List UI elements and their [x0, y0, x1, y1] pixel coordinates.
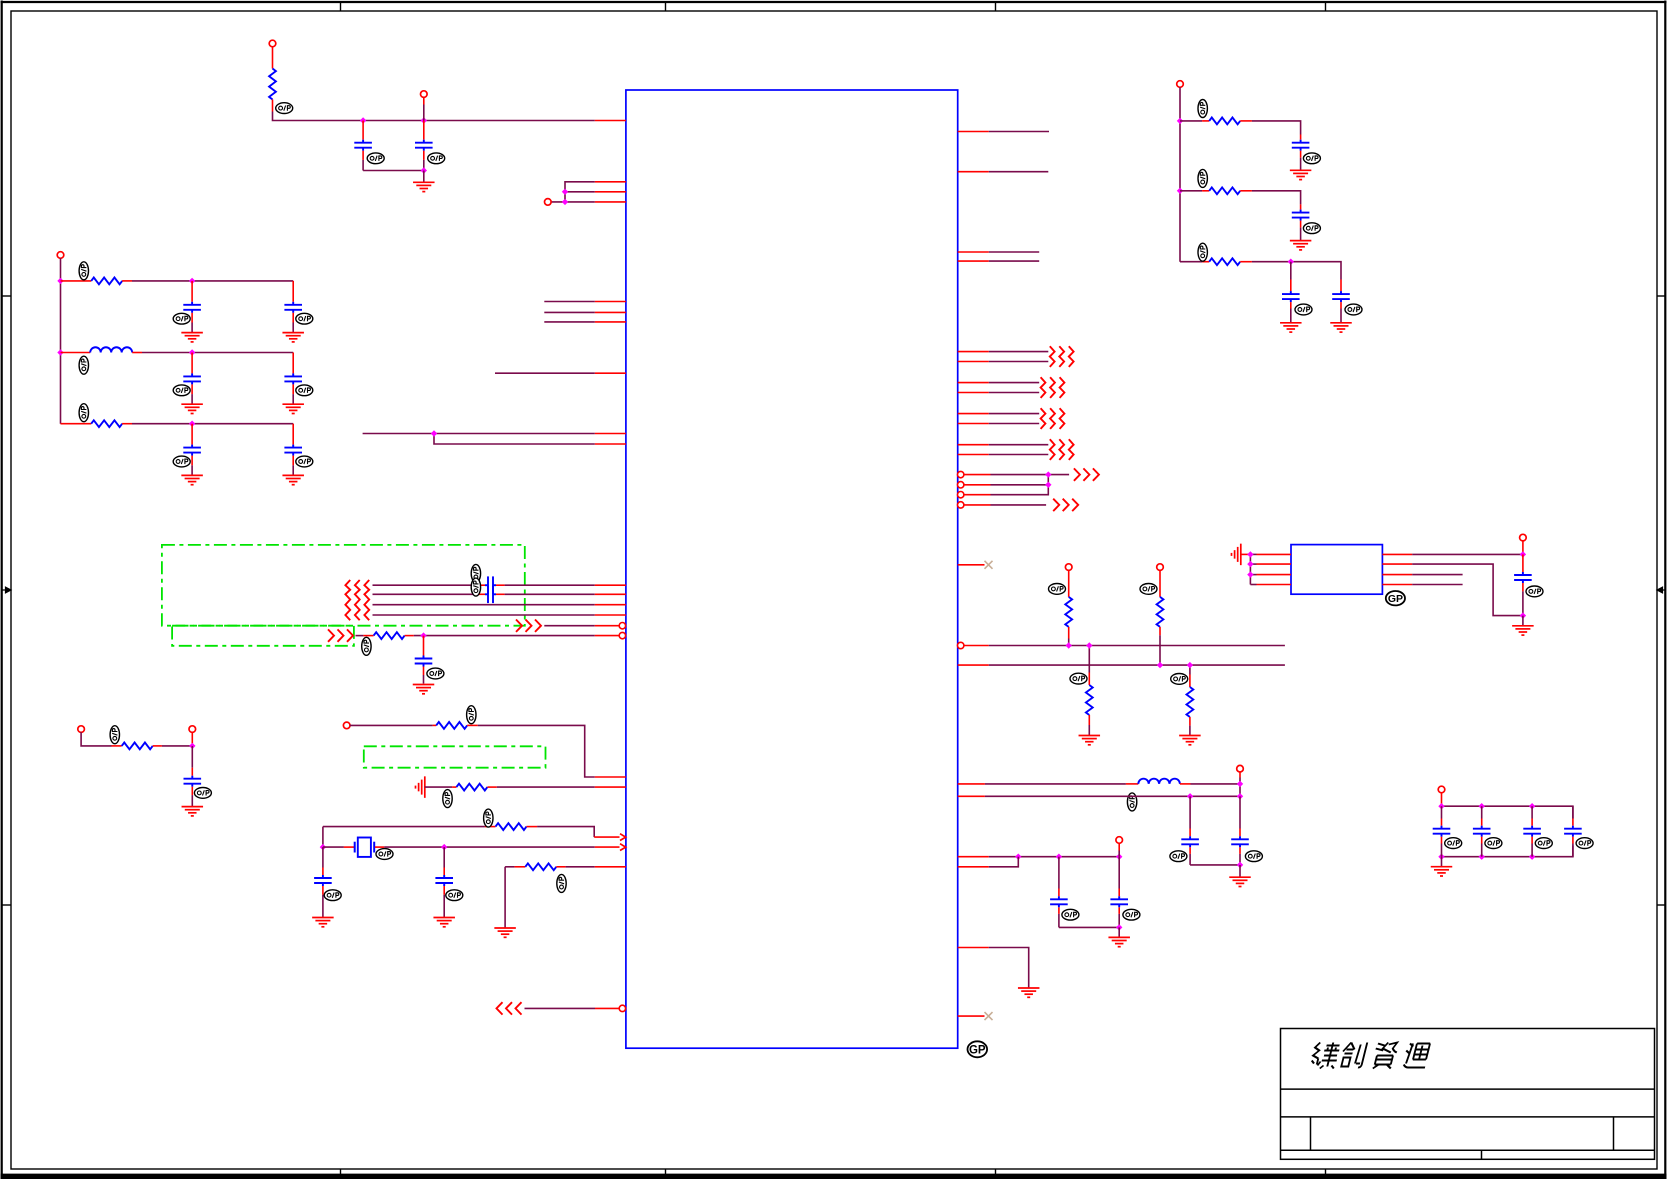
- wire: [544, 321, 595, 323]
- label C22: [1345, 304, 1362, 315]
- terminal: [1177, 81, 1184, 88]
- wire: [544, 301, 595, 303]
- ground: [1280, 323, 1302, 332]
- wire: [989, 948, 1029, 988]
- terminal: [57, 252, 64, 259]
- ground: [1079, 736, 1101, 745]
- pin U2 left 3: [1250, 574, 1291, 576]
- label C20: [1303, 223, 1320, 234]
- module box (dashed): [364, 746, 546, 767]
- junction: [421, 167, 427, 173]
- pin U1 y847 (clock): [595, 844, 626, 851]
- pin U2 right 3: [1382, 574, 1412, 576]
- label R1: [276, 103, 293, 114]
- resistor R7: [456, 784, 487, 791]
- label R5: [110, 726, 119, 744]
- capacitor C15: [1181, 796, 1199, 865]
- pin U1 right y866: [958, 866, 989, 868]
- ground: [1108, 937, 1130, 946]
- capacitor C20: [1292, 204, 1310, 240]
- capacitor C27: [1564, 806, 1582, 857]
- wire: [323, 846, 354, 848]
- wire: [1442, 806, 1573, 818]
- wire: [551, 201, 595, 203]
- label C5: [173, 385, 190, 396]
- ground: [494, 928, 515, 937]
- label C2: [428, 153, 445, 164]
- label R12: [1070, 673, 1087, 684]
- wire: [1252, 262, 1341, 280]
- module box (dashed): [162, 545, 525, 626]
- junction: [1015, 854, 1021, 860]
- wire: [423, 97, 425, 120]
- capacitor C9 (series): [485, 576, 496, 594]
- pin U1 right y261: [958, 260, 989, 262]
- capacitor C22: [1332, 280, 1350, 323]
- wire: [273, 112, 595, 121]
- capacitor C10 (series): [485, 586, 496, 604]
- wire: [350, 724, 433, 726]
- junction: [1438, 854, 1444, 860]
- wire: [322, 827, 324, 848]
- pin U1 y837 (clock): [594, 834, 626, 841]
- wire: [496, 593, 595, 595]
- pin U1 right y413: [958, 413, 989, 415]
- ground (rotated): [416, 776, 425, 798]
- label C1: [367, 153, 384, 164]
- capacitor C3: [183, 281, 201, 333]
- wire: [434, 434, 595, 445]
- label C7: [173, 456, 190, 467]
- junction: [320, 844, 326, 850]
- pin U1 right y504: [964, 504, 991, 506]
- wire: [1118, 927, 1120, 937]
- junction: [1066, 642, 1072, 648]
- label C19: [1303, 153, 1320, 164]
- pin U1 right y392: [958, 392, 989, 394]
- junction: [1116, 854, 1122, 860]
- label R10: [1049, 584, 1066, 595]
- label C17: [1062, 909, 1079, 920]
- resistor R4: [374, 632, 405, 639]
- pin U1 right y564 (nc): [958, 561, 993, 569]
- label R16: [1198, 243, 1207, 261]
- ground: [1290, 170, 1312, 179]
- wire: [991, 474, 1070, 476]
- wire: [487, 786, 594, 788]
- terminal: [1237, 765, 1244, 772]
- wire: [478, 725, 595, 777]
- pin U1 right y494: [964, 494, 991, 496]
- wire: [989, 171, 1049, 173]
- pin U1 y594: [595, 593, 626, 595]
- pin U1 right y423: [958, 423, 989, 425]
- wire: [1190, 864, 1240, 866]
- ground: [312, 918, 334, 927]
- label GP U1: [968, 1041, 988, 1057]
- wire: [991, 504, 1047, 506]
- inductor L2: [1138, 779, 1180, 784]
- terminal: [343, 722, 350, 729]
- label C3: [173, 313, 190, 324]
- pin U2 right 2: [1382, 563, 1412, 565]
- svg-text:GP: GP: [1388, 593, 1403, 605]
- pin U2 left 4: [1250, 584, 1291, 586]
- pin U1 y776: [595, 776, 626, 778]
- pin U1 right y171: [958, 171, 989, 173]
- label C21: [1295, 304, 1312, 315]
- pin U1 left y120: [595, 120, 626, 122]
- wire: [1442, 846, 1573, 857]
- label R13: [1171, 674, 1188, 685]
- capacitor C11: [415, 636, 433, 684]
- pin U2 right 1: [1382, 553, 1412, 555]
- wire: [989, 251, 1039, 253]
- wire: [373, 614, 595, 616]
- svg-text:GP: GP: [969, 1044, 986, 1056]
- label L1: [79, 356, 88, 374]
- wire: [132, 423, 293, 425]
- crystal Y1: [355, 838, 375, 857]
- inductor L1: [61, 347, 143, 352]
- label L2: [1127, 793, 1136, 811]
- wire: [272, 47, 274, 69]
- connector chevrons (4-bit): [345, 580, 369, 620]
- label C27: [1576, 838, 1593, 849]
- capacitor C6: [284, 353, 302, 405]
- terminal: [421, 91, 428, 98]
- terminal: [1438, 786, 1445, 793]
- pin U2 left 2: [1250, 563, 1291, 565]
- capacitor C4: [284, 281, 302, 333]
- junction: [1247, 551, 1253, 557]
- connector chevrons: [328, 629, 353, 641]
- capacitor C18: [1110, 857, 1128, 928]
- pin U1 right y444: [958, 444, 989, 446]
- capacitor C17: [1050, 857, 1068, 928]
- label C4: [296, 313, 313, 324]
- junction: [1177, 188, 1183, 194]
- pin R1 lead: [272, 100, 274, 112]
- capacitor C19: [1292, 135, 1310, 171]
- terminal: [1157, 564, 1164, 571]
- ground (rotated): [1232, 544, 1241, 566]
- label C8: [296, 456, 313, 467]
- wire: [142, 352, 293, 354]
- junction: [1157, 662, 1163, 668]
- wire: [1522, 541, 1524, 555]
- junction: [1520, 551, 1526, 557]
- junction: [421, 117, 427, 123]
- pin U1 right y454: [958, 454, 989, 456]
- wire: [989, 382, 1039, 384]
- pin U1 right y783: [958, 783, 985, 785]
- ground: [282, 333, 304, 342]
- label Y1: [376, 849, 393, 860]
- label R3: [79, 404, 88, 422]
- junction: [441, 844, 447, 850]
- junction: [1237, 781, 1243, 787]
- label R2: [79, 262, 88, 280]
- junction: [1177, 118, 1183, 124]
- capacitor C7: [183, 424, 201, 476]
- junction: [189, 421, 195, 427]
- wire: [989, 413, 1039, 415]
- label C25: [1485, 838, 1502, 849]
- wire: [1412, 574, 1462, 576]
- wire: [989, 392, 1039, 394]
- wire: [1179, 87, 1181, 262]
- resistor R15: [1180, 187, 1252, 194]
- wire: [989, 444, 1049, 446]
- pin U1 right y474: [964, 474, 991, 476]
- resistor R13: [1187, 665, 1194, 735]
- pin U1 right y382: [958, 382, 989, 384]
- pin U1 y443: [595, 443, 626, 445]
- ground: [1018, 988, 1039, 997]
- wire: [1118, 843, 1120, 857]
- resistor R1: [269, 69, 276, 100]
- wire: [544, 311, 595, 313]
- wire: [1412, 564, 1523, 616]
- ground: [181, 404, 203, 413]
- wire: [1180, 783, 1240, 785]
- inverting pin bubble: [958, 471, 964, 477]
- label C23: [1526, 586, 1543, 597]
- pin U1 y201: [595, 201, 626, 203]
- capacitor C16: [1231, 796, 1249, 865]
- wire: [991, 484, 1049, 486]
- capacitor C14: [435, 847, 453, 917]
- label C24: [1445, 838, 1462, 849]
- junction: [431, 430, 437, 436]
- junction: [189, 743, 195, 749]
- ground: [1229, 877, 1251, 886]
- capacitor C8: [284, 424, 302, 476]
- wire: [363, 433, 595, 435]
- wire: [495, 372, 595, 374]
- resistor R2: [61, 278, 133, 285]
- wire: [1441, 793, 1443, 807]
- resistor R3: [61, 420, 133, 427]
- capacitor C25: [1473, 806, 1491, 857]
- wire: [132, 280, 293, 282]
- wire: [544, 625, 619, 627]
- ground: [282, 404, 304, 413]
- label R14: [1198, 100, 1207, 118]
- inverting pin bubble: [958, 502, 964, 508]
- label R8: [484, 809, 493, 827]
- wire: [1241, 553, 1251, 555]
- pin U1 right y645: [964, 645, 989, 647]
- pin U1 y191: [595, 191, 626, 193]
- junction: [1237, 793, 1243, 799]
- label C13: [324, 890, 341, 901]
- wire: [991, 475, 1049, 495]
- ground: [413, 182, 435, 191]
- capacitor C24: [1433, 806, 1451, 857]
- label C12: [194, 788, 211, 799]
- terminal: [545, 199, 552, 206]
- connector chevrons: [497, 1002, 522, 1014]
- wire: [989, 454, 1049, 456]
- junction: [562, 199, 568, 205]
- label C16: [1245, 851, 1262, 862]
- connector chevrons: [516, 620, 541, 632]
- resistor R16: [1180, 258, 1252, 265]
- label C14: [446, 890, 463, 901]
- wire: [1252, 121, 1301, 135]
- label C18: [1123, 909, 1140, 920]
- junction: [1520, 612, 1526, 618]
- pin U1 right y1016 (nc): [958, 1012, 993, 1020]
- wire: [1441, 857, 1443, 867]
- junction: [1479, 854, 1485, 860]
- junction: [1187, 662, 1193, 668]
- pin U1 y181: [595, 181, 626, 183]
- junction: [1529, 803, 1535, 809]
- junction: [189, 349, 195, 355]
- terminal: [78, 726, 85, 733]
- wire: [537, 827, 594, 838]
- pin U1 right y251: [958, 251, 989, 253]
- resistor R11: [1157, 570, 1164, 665]
- junction: [1045, 471, 1051, 477]
- pin U1 right y856: [958, 856, 989, 858]
- resistor R12: [1086, 646, 1093, 736]
- pin U1 y433: [595, 433, 626, 435]
- wire: [1249, 554, 1251, 584]
- pin U1 right y665: [958, 664, 989, 666]
- pin U1 right y361: [958, 361, 989, 363]
- wire: [989, 856, 1119, 858]
- junction: [420, 632, 426, 638]
- ground: [1512, 626, 1534, 635]
- inverting pin bubble: [619, 1005, 625, 1011]
- wire: [1059, 926, 1119, 928]
- resistor R14: [1180, 118, 1252, 125]
- junction: [1086, 642, 1092, 648]
- label C9: [471, 564, 480, 582]
- terminal: [189, 726, 196, 733]
- ground: [181, 333, 203, 342]
- capacitor C5: [183, 353, 201, 405]
- label R6: [467, 706, 476, 724]
- wire: [985, 783, 1138, 785]
- label R7: [443, 790, 452, 808]
- junction: [57, 349, 63, 355]
- junction: [1056, 854, 1062, 860]
- terminal: [269, 40, 276, 47]
- junction: [57, 278, 63, 284]
- label C6: [296, 385, 313, 396]
- label C15: [1170, 851, 1187, 862]
- junction: [360, 117, 366, 123]
- wire: [373, 604, 595, 606]
- ground: [1431, 867, 1453, 876]
- junction: [562, 189, 568, 195]
- pin U1 right y351: [958, 351, 989, 353]
- wire: [1239, 865, 1241, 877]
- wire: [565, 182, 595, 202]
- wire: [989, 260, 1039, 262]
- connector chevrons: [1074, 468, 1099, 480]
- pin U1 y866: [595, 866, 626, 868]
- connector chevrons (pair): [1041, 377, 1065, 398]
- junction: [1247, 571, 1253, 577]
- ground: [1330, 323, 1352, 332]
- wire: [565, 191, 595, 193]
- pin U1 right y947: [958, 947, 989, 949]
- capacitor C13: [314, 847, 332, 917]
- capacitor C21: [1282, 262, 1300, 323]
- wire: [162, 745, 192, 747]
- inverting pin bubble: [619, 623, 625, 629]
- company name text: [1310, 1043, 1431, 1069]
- ground: [181, 475, 203, 484]
- wire: [989, 131, 1049, 133]
- ground: [433, 918, 455, 927]
- terminal: [1116, 837, 1123, 844]
- label R11: [1140, 584, 1157, 595]
- ground: [413, 685, 435, 694]
- junction: [189, 278, 195, 284]
- capacitor C2: [415, 121, 433, 171]
- resistor R9: [505, 863, 595, 870]
- junction: [1438, 803, 1444, 809]
- wire (bus): [989, 645, 1285, 647]
- wire: [989, 423, 1039, 425]
- inverting pin bubble: [958, 482, 964, 488]
- wire: [496, 584, 595, 586]
- wire: [323, 826, 485, 828]
- pin U1 y301: [595, 301, 626, 303]
- wire: [525, 1007, 620, 1009]
- wire: [1412, 553, 1523, 555]
- pin U1 y321: [595, 321, 626, 323]
- wire: [985, 795, 1240, 797]
- junction: [1529, 854, 1535, 860]
- resistor R6: [433, 722, 478, 729]
- label C26: [1535, 838, 1552, 849]
- junction: [1237, 862, 1243, 868]
- junction: [1479, 803, 1485, 809]
- wire: [373, 593, 486, 595]
- connector chevrons: [1053, 499, 1078, 511]
- connector chevrons (pair): [1050, 346, 1074, 367]
- pin U1 y604: [595, 604, 626, 606]
- label GP U2: [1386, 591, 1405, 605]
- capacitor C1: [354, 121, 372, 171]
- title block: [1281, 1029, 1655, 1160]
- wire: [504, 867, 506, 928]
- wire: [1239, 772, 1241, 796]
- wire: [989, 857, 1019, 867]
- capacitor C12: [184, 746, 202, 807]
- wire: [60, 258, 62, 424]
- wire: [405, 635, 620, 637]
- wire (bus): [989, 664, 1285, 666]
- resistor R8: [485, 823, 537, 830]
- wire: [989, 351, 1049, 353]
- wire: [425, 786, 457, 788]
- junction: [1247, 561, 1253, 567]
- ground: [282, 475, 304, 484]
- ground: [1290, 241, 1312, 250]
- inverting pin bubble: [958, 642, 964, 648]
- wire: [1252, 191, 1301, 205]
- wire: [81, 732, 111, 746]
